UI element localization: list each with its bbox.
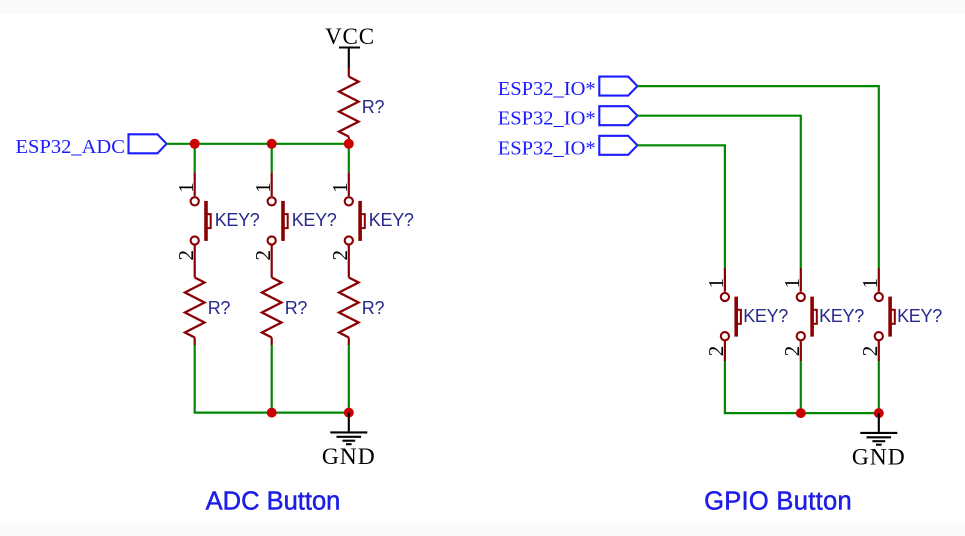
svg-text:GND: GND [322, 444, 376, 470]
svg-text:ESP32_ADC: ESP32_ADC [16, 136, 125, 158]
wire: column 3 to bottom bus [348, 345, 350, 413]
pin: key 3 bottom [878, 341, 880, 361]
svg-text:GPIO Button: GPIO Button [704, 487, 852, 515]
svg-text:1: 1 [780, 278, 804, 289]
top chrome strip [0, 0, 965, 14]
wire: column 1 to bottom bus (GPIO) [724, 361, 726, 413]
net flag ESP32_ADC [16, 134, 167, 158]
svg-text:1: 1 [174, 182, 198, 193]
svg-text:R?: R? [285, 298, 308, 318]
push button KEY? #3 (GPIO) [858, 268, 942, 356]
wire: column 3 to bottom bus (GPIO) [878, 361, 880, 413]
svg-text:ESP32_IO*: ESP32_IO* [498, 78, 596, 100]
pin: resistor 3 bottom [348, 338, 350, 346]
push button KEY? #2 (ADC) [251, 172, 337, 260]
svg-text:R?: R? [362, 298, 385, 318]
svg-text:KEY?: KEY? [819, 306, 864, 326]
wire: IO3 to column 1 [637, 145, 725, 268]
push button KEY? #1 (ADC) [174, 172, 260, 260]
svg-text:ESP32_IO*: ESP32_IO* [498, 108, 596, 130]
wire/pin: key 3 to resistor [348, 245, 350, 277]
resistor R? #1 (ADC divider) [185, 278, 230, 338]
wire: bottom bus (ADC) [195, 412, 349, 413]
svg-text:KEY?: KEY? [743, 306, 788, 326]
wire: IO2 to column 2 [637, 116, 800, 269]
wire: column 1 to bottom bus [194, 345, 196, 413]
resistor R? #3 (ADC divider) [339, 278, 384, 338]
wire/pin: key 1 to resistor [194, 245, 196, 277]
resistor R? #2 (ADC divider) [262, 278, 307, 338]
wire: top bus [166, 143, 348, 145]
svg-text:KEY?: KEY? [369, 210, 414, 230]
svg-text:R?: R? [362, 97, 385, 117]
svg-text:1: 1 [858, 278, 882, 289]
junction dots bottom bus (GPIO) [796, 408, 884, 418]
net flag ESP32_IO* #3 [498, 136, 638, 160]
push button KEY? #1 (GPIO) [704, 268, 788, 356]
wire: IO1 to column 3 [637, 86, 878, 268]
svg-text:1: 1 [328, 182, 352, 193]
pin: key 2 bottom [800, 341, 802, 361]
pin: key 1 bottom [724, 341, 726, 361]
push button KEY? #3 (ADC) [328, 172, 414, 260]
pin: resistor 1 bottom [194, 338, 196, 346]
junction dots top bus [190, 139, 354, 149]
power flag VCC [325, 24, 375, 68]
svg-text:ADC Button: ADC Button [206, 487, 341, 515]
wire: column 1 drop to key [194, 144, 196, 173]
pin: resistor 2 bottom [271, 338, 273, 346]
wire/pin: key 2 to resistor [271, 245, 273, 277]
svg-text:1: 1 [704, 278, 728, 289]
bottom chrome strip [0, 525, 965, 536]
ground GND (GPIO) [852, 413, 906, 470]
wire: column 2 to bottom bus [271, 345, 273, 413]
svg-text:VCC: VCC [325, 24, 375, 49]
svg-text:GND: GND [852, 444, 906, 470]
ground GND (ADC) [322, 413, 376, 470]
wire: column 2 to bottom bus (GPIO) [800, 361, 802, 413]
junction dots bottom bus [267, 408, 354, 418]
wire: column 2 drop to key [271, 144, 273, 173]
svg-text:1: 1 [251, 182, 275, 193]
wire: bottom bus (GPIO) [725, 412, 879, 413]
svg-text:ESP32_IO*: ESP32_IO* [498, 137, 596, 159]
net flag ESP32_IO* #2 [498, 106, 638, 130]
push button KEY? #2 (GPIO) [780, 268, 864, 356]
svg-text:KEY?: KEY? [897, 306, 942, 326]
resistor R? pull-up [339, 68, 384, 144]
svg-text:KEY?: KEY? [215, 210, 260, 230]
svg-text:R?: R? [208, 298, 231, 318]
svg-text:KEY?: KEY? [292, 210, 337, 230]
net flag ESP32_IO* #1 [498, 77, 638, 101]
wire: column 3 drop to key [348, 144, 350, 173]
